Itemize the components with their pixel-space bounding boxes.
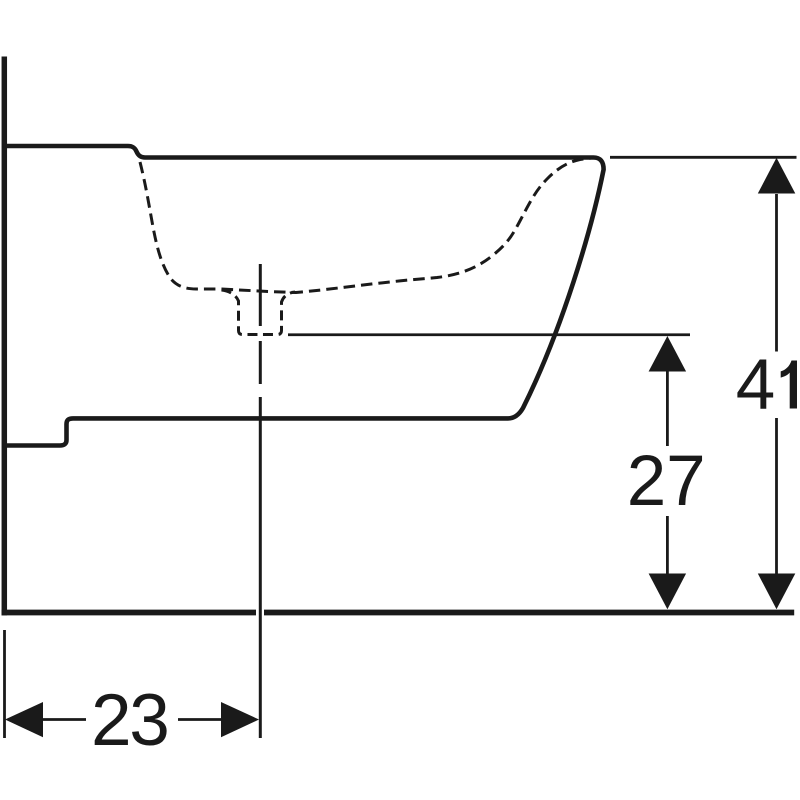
svg-text:2: 2 (627, 442, 667, 521)
svg-text:4: 4 (736, 346, 776, 425)
svg-text:7: 7 (666, 442, 706, 521)
svg-text:3: 3 (129, 680, 170, 761)
svg-text:2: 2 (91, 680, 132, 761)
